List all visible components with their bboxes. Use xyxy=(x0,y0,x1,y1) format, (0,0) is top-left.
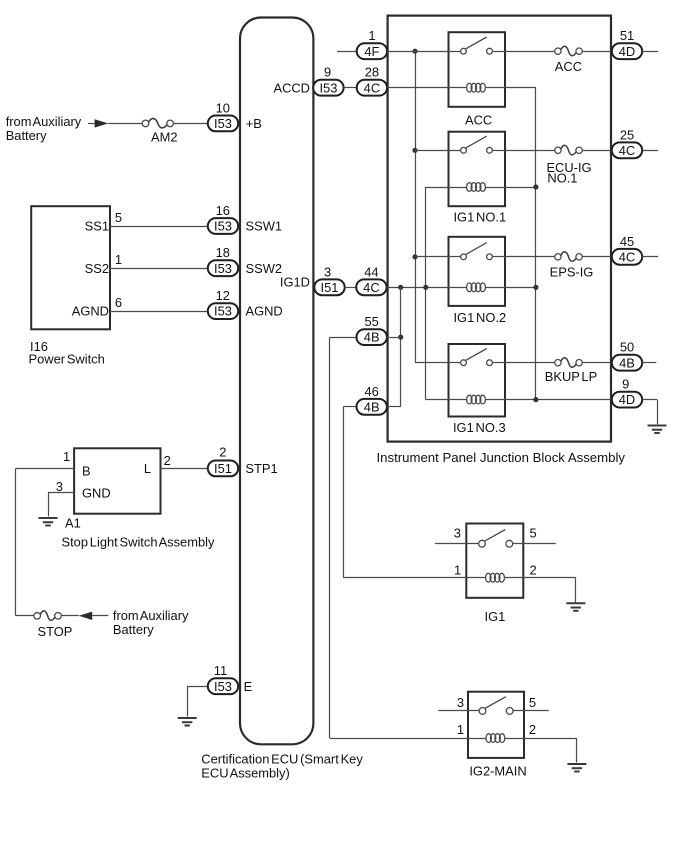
svg-text:2: 2 xyxy=(529,722,536,737)
svg-text:4C: 4C xyxy=(619,249,635,264)
svg-text:4B: 4B xyxy=(364,399,380,414)
svg-text:L: L xyxy=(144,461,151,476)
svg-text:4B: 4B xyxy=(619,355,635,370)
svg-text:1: 1 xyxy=(63,449,70,464)
svg-text:BKUP LP: BKUP LP xyxy=(545,369,597,384)
svg-text:I53: I53 xyxy=(319,80,337,95)
svg-text:I53: I53 xyxy=(214,304,232,319)
svg-text:3: 3 xyxy=(454,526,461,541)
svg-text:I51: I51 xyxy=(214,461,232,476)
svg-text:I53: I53 xyxy=(214,219,232,234)
svg-text:Battery: Battery xyxy=(6,128,47,143)
svg-text:AGND: AGND xyxy=(246,304,283,319)
svg-text:2: 2 xyxy=(219,444,226,459)
svg-text:STOP: STOP xyxy=(38,624,73,639)
svg-text:+B: +B xyxy=(246,116,262,131)
svg-text:4D: 4D xyxy=(619,44,635,59)
svg-text:E: E xyxy=(244,679,253,694)
svg-text:I51: I51 xyxy=(321,280,339,295)
svg-text:GND: GND xyxy=(82,485,111,500)
svg-text:4C: 4C xyxy=(364,80,380,95)
svg-text:Battery: Battery xyxy=(113,622,154,637)
svg-text:I53: I53 xyxy=(214,679,232,694)
svg-text:ACCD: ACCD xyxy=(273,80,310,95)
svg-text:Certification ECU (Smart Key: Certification ECU (Smart Key xyxy=(201,751,363,766)
svg-text:I53: I53 xyxy=(214,261,232,276)
svg-text:25: 25 xyxy=(620,127,634,142)
svg-text:16: 16 xyxy=(216,203,230,218)
svg-text:5: 5 xyxy=(530,526,537,541)
svg-text:6: 6 xyxy=(115,295,122,310)
svg-text:9: 9 xyxy=(324,65,331,80)
svg-text:1: 1 xyxy=(115,252,122,267)
svg-text:44: 44 xyxy=(364,264,378,279)
svg-text:B: B xyxy=(82,464,91,479)
svg-text:12: 12 xyxy=(216,288,230,303)
svg-text:ACC: ACC xyxy=(465,113,492,128)
svg-text:2: 2 xyxy=(164,453,171,468)
svg-text:28: 28 xyxy=(365,65,379,80)
svg-text:ACC: ACC xyxy=(555,59,582,74)
svg-text:IG1 NO.2: IG1 NO.2 xyxy=(453,310,506,325)
svg-text:3: 3 xyxy=(324,264,331,279)
svg-text:Power Switch: Power Switch xyxy=(29,351,105,366)
svg-text:IG1D: IG1D xyxy=(280,275,310,290)
svg-text:45: 45 xyxy=(620,234,634,249)
svg-text:5: 5 xyxy=(115,210,122,225)
svg-text:50: 50 xyxy=(620,340,634,355)
svg-text:IG1 NO.1: IG1 NO.1 xyxy=(453,209,506,224)
svg-text:ECU Assembly): ECU Assembly) xyxy=(201,766,289,781)
svg-text:4C: 4C xyxy=(619,143,635,158)
svg-text:I53: I53 xyxy=(214,116,232,131)
svg-text:1: 1 xyxy=(457,722,464,737)
svg-text:11: 11 xyxy=(214,663,227,678)
svg-text:1: 1 xyxy=(368,28,375,43)
svg-text:AM2: AM2 xyxy=(151,129,178,144)
svg-text:9: 9 xyxy=(622,377,629,392)
svg-text:AGND: AGND xyxy=(72,304,109,319)
svg-text:SSW1: SSW1 xyxy=(246,219,283,234)
svg-text:4C: 4C xyxy=(363,280,379,295)
svg-text:Stop Light Switch Assembly: Stop Light Switch Assembly xyxy=(62,535,215,550)
svg-text:1: 1 xyxy=(454,562,461,577)
svg-text:SSW2: SSW2 xyxy=(246,261,283,276)
svg-text:SS1: SS1 xyxy=(85,219,109,234)
svg-text:3: 3 xyxy=(457,695,464,710)
svg-text:STP1: STP1 xyxy=(245,461,277,476)
svg-text:5: 5 xyxy=(529,695,536,710)
svg-text:IG1 NO.3: IG1 NO.3 xyxy=(453,420,506,435)
svg-text:EPS-IG: EPS-IG xyxy=(550,265,594,280)
svg-text:IG1: IG1 xyxy=(485,609,506,624)
svg-text:3: 3 xyxy=(56,479,63,494)
svg-text:10: 10 xyxy=(216,100,230,115)
svg-text:2: 2 xyxy=(530,562,537,577)
svg-text:IG2-MAIN: IG2-MAIN xyxy=(469,764,526,779)
svg-text:Instrument Panel Junction Bloc: Instrument Panel Junction Block Assembly xyxy=(377,450,626,465)
svg-text:A1: A1 xyxy=(65,515,81,530)
svg-text:46: 46 xyxy=(365,384,379,399)
svg-text:4D: 4D xyxy=(619,392,635,407)
svg-text:51: 51 xyxy=(620,28,634,43)
svg-text:55: 55 xyxy=(365,314,379,329)
svg-text:NO.1: NO.1 xyxy=(547,171,577,186)
svg-text:4F: 4F xyxy=(364,44,379,59)
svg-text:4B: 4B xyxy=(364,330,380,345)
svg-text:18: 18 xyxy=(216,245,230,260)
svg-text:SS2: SS2 xyxy=(85,261,109,276)
